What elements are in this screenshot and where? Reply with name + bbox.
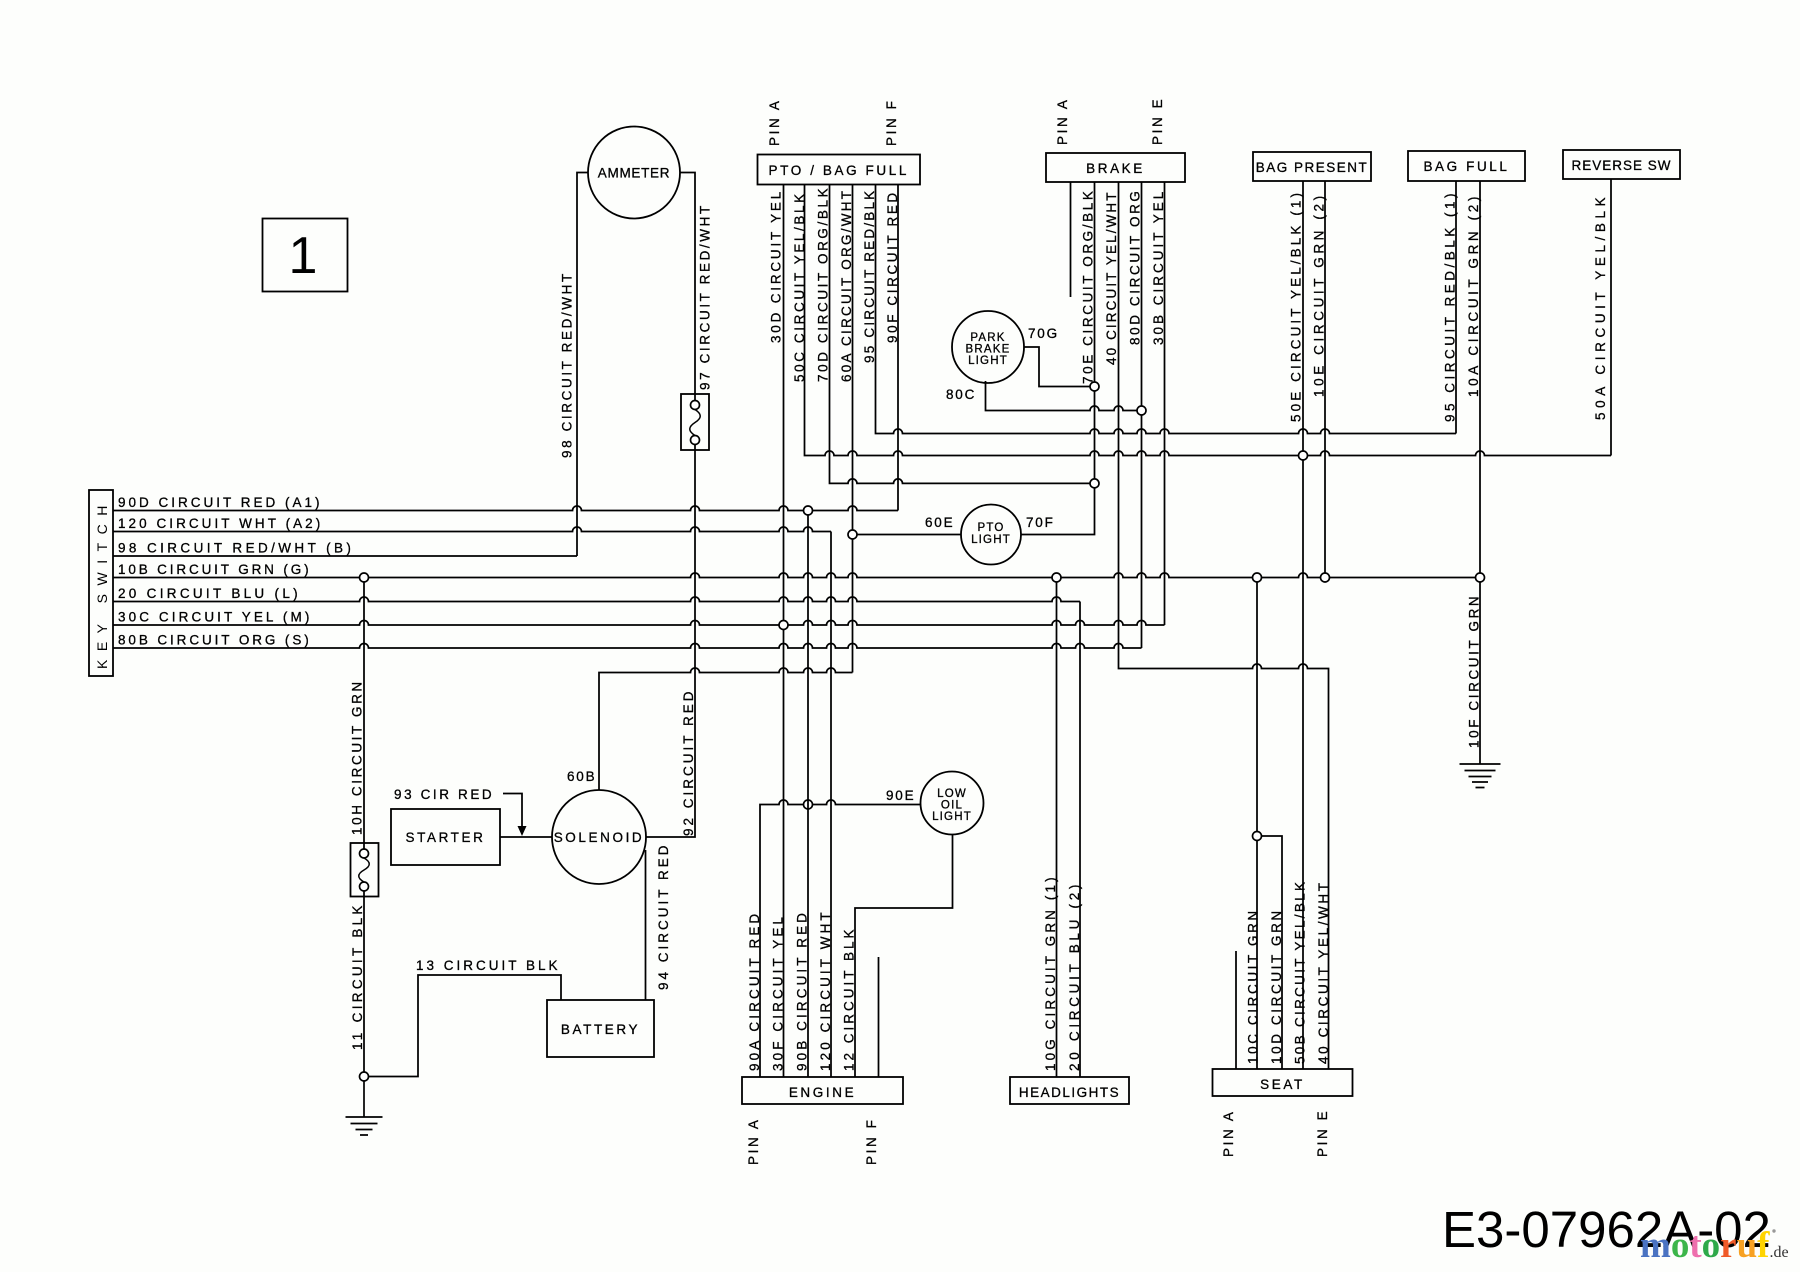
wire 120 row (key switch A2) [113, 527, 831, 532]
svg-text:PIN E: PIN E [1315, 1109, 1330, 1157]
callout box 1 [263, 219, 348, 292]
fuse F1 (97 circuit) [681, 394, 709, 450]
svg-text:10H CIRCUIT GRN: 10H CIRCUIT GRN [349, 679, 364, 835]
wire 70E (BRAKE to PTO light) [1021, 182, 1095, 535]
svg-text:80B CIRCUIT ORG (S): 80B CIRCUIT ORG (S) [118, 633, 312, 648]
wire 30B (BRAKE pin E) [1164, 182, 1166, 625]
wire starter to solenoid [500, 836, 552, 838]
svg-text:94 CIRCUIT RED: 94 CIRCUIT RED [656, 842, 671, 990]
wire 10B row (key switch G) [113, 573, 1480, 578]
svg-text:10B CIRCUIT GRN (G): 10B CIRCUIT GRN (G) [118, 562, 311, 577]
svg-text:30F CIRCUIT YEL: 30F CIRCUIT YEL [770, 914, 785, 1071]
wire 60E (PTO light to 60A) [857, 534, 961, 536]
starter box [391, 809, 500, 865]
svg-text:LOW: LOW [937, 788, 967, 800]
wire 90B (row A1 to engine pin C) [807, 515, 809, 1077]
svg-text:11 CIRCUIT BLK: 11 CIRCUIT BLK [350, 902, 365, 1050]
svg-text:90E: 90E [886, 788, 915, 803]
svg-text:95 CIRCUIT RED/BLK: 95 CIRCUIT RED/BLK [862, 189, 877, 363]
junction 70E/70G [1090, 382, 1099, 391]
low oil light [921, 772, 984, 835]
svg-text:LIGHT: LIGHT [932, 811, 972, 823]
ammeter A1 [588, 127, 680, 219]
wire 30C row (key switch M) [113, 621, 1165, 626]
svg-text:1: 1 [289, 227, 318, 285]
connector PTO / BAG FULL box [758, 155, 921, 185]
svg-text:50B CIRCUIT YEL/BLK: 50B CIRCUIT YEL/BLK [1292, 880, 1307, 1064]
wire 98 row (key switch B) [113, 555, 577, 557]
svg-text:12 CIRCUIT BLK: 12 CIRCUIT BLK [841, 926, 856, 1071]
wire 50C (PTO pin B) [805, 185, 1612, 456]
wire 50A (REVERSE SW) [1610, 179, 1612, 456]
wire 12 (low oil light to engine pin E) [855, 835, 953, 1078]
svg-text:BATTERY: BATTERY [561, 1022, 640, 1037]
wire 97 (ammeter right to fuse) [680, 173, 695, 401]
wire 98 (ammeter left to key switch B) [577, 173, 588, 557]
svg-text:98 CIRCUIT RED/WHT (B): 98 CIRCUIT RED/WHT (B) [118, 541, 354, 556]
wire 13 (battery to ground) [369, 975, 562, 1077]
svg-text:92 CIRCUIT RED: 92 CIRCUIT RED [681, 688, 696, 836]
junction 10B/10G [1052, 573, 1061, 582]
wire 30D (PTO pin A to engine 30F) [783, 185, 785, 1078]
junction 50C/50E [1299, 451, 1308, 460]
connector HEADLIGHTS box [1010, 1077, 1129, 1104]
svg-text:20 CIRCUIT BLU (2): 20 CIRCUIT BLU (2) [1067, 881, 1082, 1071]
connector BRAKE box [1046, 153, 1185, 182]
connector REVERSE SW box [1563, 150, 1680, 179]
svg-text:PIN F: PIN F [884, 98, 899, 146]
wire 11 (fuse to ground) [363, 891, 365, 1072]
svg-text:98 CIRCUIT RED/WHT: 98 CIRCUIT RED/WHT [559, 271, 574, 458]
wire 10G (row G to headlights pin 1) [1056, 582, 1058, 1077]
svg-text:97 CIRCUIT RED/WHT: 97 CIRCUIT RED/WHT [697, 203, 712, 390]
key switch box [89, 490, 113, 676]
wire 93 leader arrow [503, 794, 522, 828]
svg-text:60A CIRCUIT ORG/WHT: 60A CIRCUIT ORG/WHT [839, 189, 854, 382]
connector BAG FULL box [1408, 151, 1525, 181]
svg-text:SOLENOID: SOLENOID [554, 830, 645, 845]
svg-text:20 CIRCUIT BLU (L): 20 CIRCUIT BLU (L) [118, 586, 301, 601]
ground (battery negative) [346, 1081, 383, 1135]
wire BRAKE pin A stub [1070, 182, 1072, 297]
fuse F2 (10H/11 circuit) [351, 843, 379, 897]
wire 90F (PTO pin F to row A1) [897, 185, 899, 511]
wire 50B (seat pin C) [1262, 836, 1283, 1069]
svg-text:120 CIRCUIT WHT: 120 CIRCUIT WHT [818, 909, 833, 1071]
svg-text:LIGHT: LIGHT [968, 355, 1008, 367]
wire 92 (fuse to solenoid) [646, 445, 695, 838]
svg-text:BAG FULL: BAG FULL [1423, 159, 1509, 174]
wire 80C (park light to 80D) [986, 381, 1138, 411]
ground 10F [1460, 764, 1501, 788]
wire 10E (BAG PRESENT pin 2) [1324, 181, 1326, 573]
svg-text:PTO / BAG FULL: PTO / BAG FULL [769, 163, 909, 178]
connector BAG PRESENT box [1253, 152, 1371, 181]
svg-text:OIL: OIL [941, 800, 963, 812]
svg-text:10F CIRCUIT GRN: 10F CIRCUIT GRN [1466, 594, 1481, 748]
svg-text:70G: 70G [1028, 326, 1059, 341]
svg-text:80D CIRCUIT ORG: 80D CIRCUIT ORG [1127, 188, 1142, 345]
junction 10B/10D [1253, 573, 1262, 582]
junction 10B/10H [360, 573, 369, 582]
svg-text:90F CIRCUIT RED: 90F CIRCUIT RED [885, 190, 900, 343]
wire seat pin A stub [1235, 951, 1237, 1069]
wire 95 (BAG FULL pin 1) [1455, 181, 1457, 434]
svg-text:PIN A: PIN A [746, 1117, 761, 1165]
junction 70D/70F [1090, 479, 1099, 488]
connector ENGINE box [742, 1077, 903, 1104]
svg-text:30D CIRCUIT YEL: 30D CIRCUIT YEL [768, 189, 783, 343]
svg-text:30C CIRCUIT YEL (M): 30C CIRCUIT YEL (M) [118, 610, 312, 625]
svg-text:50C CIRCUIT YEL/BLK: 50C CIRCUIT YEL/BLK [792, 191, 807, 382]
junction 10B/10A/10F [1476, 573, 1485, 582]
wire engine pin F stub [878, 957, 880, 1077]
svg-text:95 CIRCUIT RED/BLK (1): 95 CIRCUIT RED/BLK (1) [1442, 190, 1457, 422]
junction 60A/60E [848, 530, 857, 539]
junction 90D/90B [804, 506, 813, 515]
wire 95 (PTO pin E) [876, 185, 1457, 434]
svg-text:LIGHT: LIGHT [971, 534, 1011, 546]
svg-text:PIN A: PIN A [1055, 97, 1070, 145]
svg-text:30B CIRCUIT YEL: 30B CIRCUIT YEL [1151, 189, 1166, 345]
svg-text:93 CIR RED: 93 CIR RED [394, 787, 494, 802]
wire 40 (BRAKE to seat) [1119, 182, 1329, 1069]
wire 80B row (key switch S) [113, 644, 1142, 649]
park brake light [952, 311, 1024, 383]
wire 90D row (key switch A1) [113, 506, 898, 511]
svg-text:REVERSE SW: REVERSE SW [1571, 158, 1671, 173]
svg-text:PIN E: PIN E [1150, 97, 1165, 145]
wire 10A/10F (BAG FULL pin 2 to ground) [1479, 181, 1481, 764]
wire 94 (solenoid to battery) [645, 850, 647, 1000]
svg-text:60E: 60E [925, 515, 954, 530]
svg-text:PTO: PTO [977, 522, 1004, 534]
svg-text:70E CIRCUIT ORG/BLK: 70E CIRCUIT ORG/BLK [1080, 189, 1095, 384]
svg-text:SEAT: SEAT [1260, 1077, 1305, 1092]
svg-text:70D CIRCUIT ORG/BLK: 70D CIRCUIT ORG/BLK [815, 186, 830, 382]
wire 80D (BRAKE pin) [1141, 182, 1143, 648]
svg-text:50E CIRCUIT YEL/BLK (1): 50E CIRCUIT YEL/BLK (1) [1288, 190, 1303, 422]
svg-text:BAG PRESENT: BAG PRESENT [1256, 160, 1369, 175]
svg-text:ENGINE: ENGINE [789, 1085, 856, 1100]
svg-text:50A CIRCUIT YEL/BLK: 50A CIRCUIT YEL/BLK [1593, 193, 1608, 420]
svg-text:10G CIRCUIT GRN (1): 10G CIRCUIT GRN (1) [1043, 874, 1058, 1071]
wire 20 (row L to headlights pin 2) [1079, 602, 1081, 1078]
wire 60B (solenoid to 60A) [599, 668, 853, 790]
svg-text:10E CIRCUIT GRN (2): 10E CIRCUIT GRN (2) [1311, 192, 1326, 397]
wire 10H (row G to fuse) [363, 582, 365, 849]
svg-text:13 CIRCUIT BLK: 13 CIRCUIT BLK [416, 958, 561, 973]
svg-text:10A CIRCUIT GRN (2): 10A CIRCUIT GRN (2) [1466, 193, 1481, 397]
junction 10D/50B [1253, 832, 1262, 841]
wire 120 (row A2 to engine pin D) [830, 532, 832, 1078]
junction 30C/30D [779, 621, 788, 630]
svg-text:40 CIRCUIT YEL/WHT: 40 CIRCUIT YEL/WHT [1104, 190, 1119, 365]
svg-text:90D CIRCUIT RED (A1): 90D CIRCUIT RED (A1) [118, 495, 323, 510]
svg-text:70F: 70F [1026, 515, 1055, 530]
solenoid [552, 790, 646, 884]
svg-text:AMMETER: AMMETER [598, 166, 670, 181]
connector SEAT box [1213, 1069, 1353, 1096]
svg-text:BRAKE: BRAKE [966, 344, 1011, 356]
svg-text:PARK: PARK [970, 332, 1005, 344]
wire 50E (BAG PRESENT pin 1 to seat) [1302, 181, 1304, 1069]
svg-text:120 CIRCUIT WHT (A2): 120 CIRCUIT WHT (A2) [118, 516, 323, 531]
junction 80D/80C [1137, 406, 1146, 415]
svg-text:PIN A: PIN A [1221, 1109, 1236, 1157]
svg-text:10C CIRCUIT GRN: 10C CIRCUIT GRN [1245, 908, 1260, 1064]
wire 20 row (key switch L) [113, 597, 1080, 602]
svg-text:STARTER: STARTER [406, 830, 486, 845]
wire 60A (PTO pin D) [852, 185, 854, 673]
junction 10B/10E [1321, 573, 1330, 582]
battery box [547, 1000, 654, 1057]
svg-text:PIN F: PIN F [864, 1117, 879, 1165]
svg-text:motoruf.de: motoruf.de [1640, 1225, 1789, 1266]
svg-text:90A CIRCUIT RED: 90A CIRCUIT RED [747, 911, 762, 1071]
wire 70G (park light to 70E) [1024, 347, 1090, 387]
svg-text:40 CIRCUIT YEL/WHT: 40 CIRCUIT YEL/WHT [1316, 880, 1331, 1064]
wire 90A/90E (engine pin A to low oil light) [760, 800, 921, 1077]
junction 90E/90B [804, 800, 813, 809]
PTO light [961, 505, 1021, 565]
svg-text:90B CIRCUIT RED: 90B CIRCUIT RED [794, 910, 809, 1071]
wire 10D (row G to seat pin B) [1256, 582, 1258, 1069]
wire 70D (PTO pin C) [830, 185, 1091, 484]
svg-text:PIN A: PIN A [767, 98, 782, 146]
svg-text:HEADLIGHTS: HEADLIGHTS [1019, 1085, 1120, 1100]
svg-text:60B: 60B [567, 769, 596, 784]
svg-text:BRAKE: BRAKE [1086, 161, 1145, 176]
junction 11/13 [360, 1072, 369, 1081]
svg-text:80C: 80C [946, 387, 976, 402]
svg-text:KEY SWITCH: KEY SWITCH [94, 497, 110, 669]
